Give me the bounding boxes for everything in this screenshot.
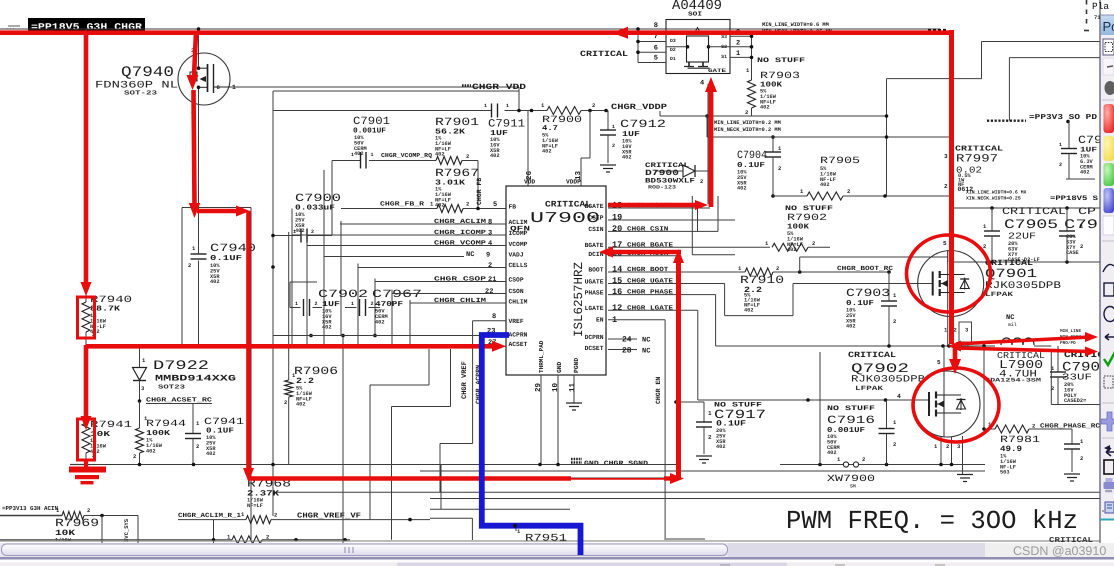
ground Q7902: [957, 465, 973, 482]
svg-text:2: 2: [1080, 243, 1083, 250]
resistor R7901: [435, 117, 480, 209]
svg-text:=PP3V3 SO PD: =PP3V3 SO PD: [1029, 113, 1098, 122]
svg-text:2: 2: [188, 262, 191, 269]
svg-text:C7916: C7916: [827, 415, 875, 427]
resistor R7903 (no stuff): [745, 57, 805, 116]
wire CHGR_VDD rail: [273, 83, 526, 92]
red annotation: Q7902 circle: [913, 368, 999, 442]
svg-text:29: 29: [534, 382, 543, 392]
svg-text:CHGR_VCOMP: CHGR_VCOMP: [434, 240, 486, 247]
diode D7922 MMBD914XXG: [133, 346, 237, 401]
svg-text:R7997: R7997: [956, 154, 998, 166]
svg-text:SOI: SOI: [688, 11, 703, 18]
svg-text:Q7901: Q7901: [985, 267, 1037, 281]
svg-text:CRITICAL: CRITICAL: [580, 50, 628, 59]
resistor R7900: [541, 102, 595, 155]
svg-text:NC: NC: [1006, 314, 1014, 322]
svg-text:R7900: R7900: [542, 114, 582, 125]
svg-text:CASED2=: CASED2=: [1064, 398, 1086, 404]
svg-text:26: 26: [525, 170, 534, 180]
svg-text:NO STUFF: NO STUFF: [757, 57, 805, 65]
svg-text:MIN_LINE_WIDTH=0.6 MM: MIN_LINE_WIDTH=0.6 MM: [762, 22, 829, 28]
svg-text:BGATE: BGATE: [585, 242, 604, 249]
resistor R7951 (partial): [430, 518, 567, 544]
svg-text:SOT23: SOT23: [158, 384, 186, 391]
node CHGR_EN: [655, 377, 662, 404]
svg-text:R7941: R7941: [90, 419, 132, 430]
red annotation: ground emphasis: [69, 460, 106, 484]
svg-text:mil: mil: [1008, 322, 1017, 328]
svg-text:402: 402: [1080, 170, 1090, 176]
svg-text:CHGR_ICOMP: CHGR_ICOMP: [434, 229, 486, 236]
svg-text:SVC_SYS: SVC_SYS: [123, 518, 130, 542]
capacitor C7905 critical: [983, 207, 1066, 263]
svg-text:NC: NC: [642, 337, 650, 345]
transistor Q7940 FDN360P: [95, 27, 236, 115]
svg-text:2: 2: [284, 399, 287, 406]
red annotation: BGATE to A04409 gate: [608, 77, 717, 210]
svg-text:DCPRN: DCPRN: [585, 334, 604, 341]
svg-text:R7902: R7902: [787, 212, 827, 223]
svg-text:D7922: D7922: [153, 358, 209, 373]
svg-text:LGATE: LGATE: [585, 305, 604, 312]
transistor Q7902 RJK0305DPB: [848, 346, 980, 474]
svg-text:33UF: 33UF: [1062, 373, 1092, 383]
resistor R7905: [773, 155, 952, 200]
svg-text:R7967: R7967: [435, 168, 479, 180]
wire bottom of acset rc: [85, 453, 87, 465]
blue annotation over scrollbar: [578, 543, 584, 555]
transistor A04409 dual fet: [638, 0, 752, 88]
ground C7982: [1064, 474, 1080, 481]
svg-text:5: 5: [943, 240, 947, 247]
svg-text:VADJ: VADJ: [509, 252, 524, 259]
svg-text:VREF: VREF: [509, 318, 524, 325]
capacitor C7908 33UF: [1050, 346, 1104, 405]
blue annotation: ACPRN trace: [482, 335, 581, 552]
red annotation: arrow down into Q7902: [949, 346, 961, 374]
red annotation: ACSET arrow: [86, 341, 506, 352]
wire Q7940 source down: [182, 104, 251, 540]
svg-text:402: 402: [744, 308, 754, 314]
svg-text:ACLIM: ACLIM: [509, 219, 528, 226]
svg-text:NF=LF: NF=LF: [247, 503, 263, 509]
wire long rail y465: [70, 463, 677, 467]
svg-text:2: 2: [812, 240, 815, 247]
svg-text:10: 10: [551, 382, 560, 392]
svg-text:CSIP: CSIP: [588, 215, 603, 222]
svg-text:402: 402: [296, 402, 306, 408]
svg-text:NC: NC: [466, 251, 474, 259]
wire loop corner x700 y394: [0, 0, 1, 1]
svg-text:2: 2: [778, 165, 781, 172]
wire A04409 right pins bus: [750, 34, 754, 80]
svg-text:2: 2: [745, 109, 748, 116]
svg-text:C79: C79: [1078, 135, 1102, 147]
capacitor C7917 (no stuff): [677, 402, 766, 455]
svg-text:XIN_LINE_WIDTH=0.6 MX: XIN_LINE_WIDTH=0.6 MX: [966, 190, 1027, 196]
svg-text:402: 402: [820, 182, 830, 188]
svg-text:CHGR EN: CHGR EN: [655, 377, 662, 404]
node phase row y346: [716, 344, 995, 348]
svg-text:CHGR_ACSET_RC: CHGR_ACSET_RC: [146, 397, 212, 404]
svg-text:402: 402: [435, 152, 445, 158]
resistor R7906: [284, 232, 338, 465]
svg-text:ROD-123: ROD-123: [648, 185, 676, 191]
red annotation: vertical through Q7940: [187, 33, 251, 218]
svg-text:NC: NC: [642, 348, 650, 356]
svg-text:SOT-23: SOT-23: [124, 90, 157, 97]
svg-text:0.1UF: 0.1UF: [210, 254, 243, 263]
capacitor C7982: [1064, 429, 1084, 472]
resistor CHGR_ACLIM_R_1: [178, 511, 430, 545]
svg-text:C7903: C7903: [846, 288, 890, 300]
node CHGR_VDDP wire tick: [659, 111, 661, 116]
svg-text:16: 16: [612, 287, 622, 297]
svg-text:GATE: GATE: [708, 68, 726, 74]
svg-text:MIN_NECK_WIDTH=0.2 MM: MIN_NECK_WIDTH=0.2 MM: [714, 127, 781, 133]
svg-text:C7912: C7912: [620, 119, 666, 131]
svg-text:2: 2: [983, 243, 986, 250]
ground PGND: [566, 403, 582, 410]
svg-text:VCOMP: VCOMP: [509, 241, 528, 248]
svg-text:402: 402: [622, 155, 632, 161]
svg-text:C7911: C7911: [488, 119, 525, 131]
toolbar panel right: [1101, 15, 1114, 520]
svg-text:2: 2: [736, 40, 740, 48]
wire Q7902 source rail: [780, 463, 985, 467]
svg-text:S2: S2: [721, 44, 727, 50]
wire long rail y490: [273, 465, 1100, 539]
capacitor C7903: [846, 272, 897, 346]
red annotation: left vertical with arrow: [81, 33, 92, 296]
svg-text:402: 402: [490, 153, 500, 159]
svg-text:21: 21: [488, 276, 496, 284]
svg-text:R7901: R7901: [435, 117, 480, 129]
svg-text:402: 402: [210, 279, 220, 285]
svg-text:LFPAK: LFPAK: [985, 291, 1013, 298]
red annotation: right vertical: [949, 30, 954, 344]
svg-text:CHGR VDD: CHGR VDD: [472, 83, 526, 92]
wire boot to gate Q7901: [793, 283, 933, 285]
svg-text:24: 24: [622, 336, 632, 345]
svg-text:2: 2: [133, 453, 136, 460]
node =PP3V13_G3H_ACIN: [0, 505, 62, 516]
diode D7900 BD530W: [645, 162, 712, 191]
svg-text:R7951: R7951: [525, 534, 567, 545]
svg-text:CHGR VREF: CHGR VREF: [461, 361, 469, 399]
svg-text:LFPAK: LFPAK: [855, 385, 883, 392]
svg-text:3: 3: [488, 230, 492, 238]
resistor CHGR_FB_R: [341, 201, 506, 213]
svg-text:2: 2: [776, 265, 779, 272]
svg-text:1: 1: [506, 103, 509, 109]
svg-text:PHASE: PHASE: [585, 290, 604, 297]
svg-text:C7902: C7902: [318, 289, 368, 301]
svg-text:C7941: C7941: [204, 416, 244, 427]
min width notes right: [966, 190, 1027, 202]
svg-text:CRITICAL: CRITICAL: [955, 145, 1004, 154]
svg-text:GND CHGR SGND: GND CHGR SGND: [584, 460, 648, 467]
svg-text:402: 402: [542, 149, 552, 155]
svg-text:=PP3V13 G3H ACIN: =PP3V13 G3H ACIN: [2, 505, 58, 512]
svg-text:402: 402: [354, 151, 364, 157]
svg-text:R7981: R7981: [1000, 434, 1040, 445]
svg-text:CHGR_VDDP: CHGR_VDDP: [611, 103, 667, 112]
svg-text:D2: D2: [670, 47, 676, 53]
node GND_CHGR_SGND: [571, 459, 648, 467]
resistor R7969: [55, 507, 138, 545]
svg-text:8: 8: [492, 313, 496, 321]
svg-text:1: 1: [351, 152, 354, 158]
capacitor C7901: [332, 116, 436, 236]
svg-text:CHLIM: CHLIM: [509, 299, 528, 306]
svg-text:MIN_LINE_WIDTH=0.2 MM: MIN_LINE_WIDTH=0.2 MM: [714, 120, 781, 126]
capacitor C7967: [345, 289, 422, 325]
svg-text:2: 2: [862, 456, 865, 463]
svg-text:12: 12: [612, 303, 622, 313]
svg-text:ACSET: ACSET: [509, 341, 528, 348]
svg-text:THRML_PAD: THRML_PAD: [538, 340, 545, 373]
svg-text:402: 402: [827, 450, 837, 456]
svg-text:CSOP: CSOP: [509, 277, 524, 284]
svg-text:2: 2: [893, 318, 896, 325]
red annotation: rect around R7940: [78, 297, 95, 338]
svg-text:BGATE: BGATE: [585, 203, 604, 210]
svg-text:UGATE: UGATE: [585, 279, 604, 286]
svg-text:402: 402: [206, 451, 216, 457]
svg-text:CSON: CSON: [509, 288, 524, 295]
svg-text:C7967: C7967: [372, 289, 422, 301]
node =PP3V3_SO_PD: [987, 113, 1098, 123]
svg-text:CHGR_PHASE_RC: CHGR_PHASE_RC: [1040, 423, 1100, 430]
svg-text:402: 402: [846, 324, 856, 330]
wire Q7940 gate to CHGR_VDD: [230, 87, 519, 111]
resistor R7967: [435, 168, 483, 404]
resistor R7968: [247, 479, 291, 509]
svg-text:EN: EN: [596, 317, 604, 324]
inductor L7900: [985, 314, 1051, 384]
svg-text:CHGR_ACLIM_R_1: CHGR_ACLIM_R_1: [178, 512, 241, 519]
junction on blue: [513, 524, 517, 528]
svg-text:CASE: CASE: [1066, 250, 1079, 256]
svg-text:CHGR_BOOT_RC: CHGR_BOOT_RC: [837, 265, 893, 272]
wire top rail PP18V5: [0, 25, 947, 31]
svg-text:2: 2: [87, 507, 90, 514]
svg-text:C7904: C7904: [737, 150, 767, 162]
svg-text:FDA1254-3SM: FDA1254-3SM: [985, 377, 1042, 384]
svg-text:2: 2: [466, 201, 469, 208]
svg-text:FB: FB: [509, 204, 517, 211]
svg-text:D1: D1: [670, 56, 676, 62]
svg-text:CHGR FB: CHGR FB: [476, 178, 483, 205]
jumper XW7900: [820, 352, 875, 490]
svg-text:402: 402: [716, 444, 726, 450]
status strip: [0, 557, 1114, 566]
capacitor C7911: [484, 103, 525, 159]
wire staircase right of U7900: [665, 196, 929, 540]
svg-text:NO STUFF: NO STUFF: [827, 405, 875, 413]
svg-text:C7905: C7905: [1004, 217, 1058, 232]
resistor R7940: [82, 29, 132, 345]
svg-text:2: 2: [700, 178, 703, 185]
U7900 bottom pins THRML_PAD GND PGND: [534, 340, 580, 464]
capacitor C7900: [271, 193, 341, 269]
svg-text:1: 1: [736, 50, 740, 58]
capacitor C7902: [290, 282, 368, 331]
svg-text:R7940: R7940: [90, 294, 132, 305]
svg-text:Q7940: Q7940: [121, 65, 174, 81]
svg-text:CHGR_CHLIM: CHGR_CHLIM: [434, 297, 486, 304]
capacitor C7913 top right: [1059, 122, 1102, 180]
red annotation: rect around R7941: [78, 419, 95, 460]
resistor R7910: [738, 257, 948, 314]
svg-text:DCSET: DCSET: [585, 345, 604, 352]
svg-text:5: 5: [654, 55, 658, 63]
node CHGR_ACSET_RC: [138, 397, 213, 404]
svg-text:4: 4: [488, 240, 492, 248]
svg-text:22UF: 22UF: [1008, 232, 1036, 242]
svg-text:2: 2: [946, 443, 949, 450]
svg-text:PWM FREQ. = 3OO kHz: PWM FREQ. = 3OO kHz: [786, 506, 1078, 536]
wire main VDD row: [273, 109, 608, 113]
red annotation: top line: [0, 27, 950, 39]
svg-text:ISL6257HRZ: ISL6257HRZ: [572, 261, 586, 337]
svg-text:2: 2: [311, 229, 314, 235]
svg-text:2: 2: [466, 153, 469, 160]
svg-text:1: 1: [351, 301, 354, 307]
svg-text:BOOT: BOOT: [588, 267, 603, 274]
red annotation: bottom horizontal to EN: [249, 473, 685, 484]
svg-text:5: 5: [493, 201, 497, 209]
red annotation: vertical x247 with arrow: [243, 211, 254, 482]
capacitor C7904: [737, 135, 782, 198]
red annotation: double arrow right side: [948, 332, 1098, 357]
node =PP18V5_S: [1050, 195, 1098, 203]
svg-text:402: 402: [375, 319, 385, 325]
svg-text:2: 2: [1059, 162, 1062, 168]
svg-text:CHGR_ACLIM: CHGR_ACLIM: [434, 218, 486, 225]
svg-text:1: 1: [293, 229, 296, 235]
svg-text:1: 1: [484, 103, 487, 109]
net rows out of U7900 right: [608, 84, 793, 356]
svg-text:2: 2: [893, 441, 896, 448]
svg-text:D3: D3: [670, 38, 676, 44]
svg-text:C7900: C7900: [295, 193, 341, 205]
resistor R7944: [133, 401, 186, 465]
ground left (black): [70, 464, 86, 466]
svg-text:20: 20: [612, 224, 622, 234]
svg-text:8: 8: [654, 22, 658, 30]
svg-text:2: 2: [612, 143, 615, 149]
svg-text:R7903: R7903: [760, 70, 800, 81]
svg-text:13: 13: [574, 170, 583, 180]
svg-text:8: 8: [488, 219, 492, 227]
capacitor C7941: [185, 404, 244, 465]
svg-text:RJK0305DPB: RJK0305DPB: [851, 374, 925, 385]
wire rail y478 under red: [420, 477, 678, 479]
wire A04409 left pins bus: [580, 27, 640, 62]
svg-text:2: 2: [266, 534, 269, 541]
svg-text:XW7900: XW7900: [827, 473, 875, 484]
svg-text:2: 2: [1080, 455, 1083, 462]
wire top right mesh: [660, 42, 1100, 197]
svg-text:2: 2: [274, 512, 277, 519]
svg-text:402: 402: [146, 448, 156, 454]
svg-text:1: 1: [612, 124, 615, 130]
svg-text:15: 15: [612, 276, 622, 286]
svg-text:402: 402: [760, 105, 770, 111]
svg-text:402: 402: [295, 228, 305, 234]
svg-text:ICOMP: ICOMP: [509, 230, 528, 237]
ground C7917: [696, 456, 712, 463]
svg-text:MMBD914XXG: MMBD914XXG: [155, 374, 236, 384]
wire left bus verticals: [273, 91, 473, 545]
wire gate/r7903 row: [660, 114, 752, 118]
resistor R7941: [82, 345, 132, 462]
svg-text:SM: SM: [850, 484, 856, 490]
svg-text:CHGR_CSOP: CHGR_CSOP: [434, 276, 486, 283]
svg-text:2: 2: [708, 434, 712, 441]
svg-text:2: 2: [944, 183, 948, 190]
svg-text:...: ...: [6, 25, 15, 31]
svg-text:Pla: Pla: [1092, 1, 1109, 12]
svg-text:6: 6: [654, 45, 658, 53]
svg-text:2: 2: [371, 301, 374, 307]
red annotation: Q7901 circle: [907, 235, 991, 312]
svg-text:1: 1: [371, 152, 374, 158]
svg-text:503: 503: [1000, 470, 1010, 476]
text Pla (page behind): [1084, 0, 1109, 31]
svg-text:ACPRN: ACPRN: [509, 332, 528, 339]
svg-text:PGND: PGND: [573, 358, 580, 373]
svg-text:XIN_NECK_WIDTH=0.25: XIN_NECK_WIDTH=0.25: [966, 196, 1021, 202]
svg-text:2: 2: [592, 102, 595, 109]
op-amp U7900 ISL6257HRZ charger controller IC: [506, 111, 606, 376]
svg-text:2: 2: [488, 262, 492, 270]
resistor R7997 critical: [944, 145, 1004, 194]
capacitor C7906 (clipped): [1059, 207, 1098, 262]
svg-text:2: 2: [847, 188, 850, 195]
red annotation: vertical x678 with up arrow: [673, 249, 684, 478]
svg-text:R7944: R7944: [146, 418, 186, 429]
svg-text:9: 9: [486, 252, 490, 260]
svg-text:CELLS: CELLS: [509, 262, 528, 269]
svg-text:3: 3: [944, 153, 948, 160]
node =PP18V5_G3H_CHGR highlighted net label: [28, 18, 145, 33]
svg-text:5: 5: [937, 359, 941, 366]
svg-text:Po: Po: [1103, 19, 1114, 34]
svg-text:28: 28: [622, 347, 632, 356]
capacitor C7912: [600, 111, 666, 173]
red annotation: DCIN left arrow: [599, 247, 681, 258]
node CHGR_BOOT_RC: [837, 265, 893, 272]
svg-text:S1: S1: [721, 54, 727, 60]
transistor Q7901 RJK0305DPB: [918, 240, 1061, 346]
svg-text:CHGR_VCOMP_RQ: CHGR_VCOMP_RQ: [381, 152, 432, 159]
svg-text:1: 1: [1059, 142, 1062, 148]
svg-text:14: 14: [612, 264, 622, 274]
resistor R7981: [982, 346, 1100, 476]
svg-text:402: 402: [737, 186, 747, 192]
svg-text:1: 1: [708, 410, 712, 417]
svg-text:2: 2: [315, 301, 318, 307]
svg-text:4: 4: [897, 393, 901, 400]
net rows into U7900 left: [273, 218, 506, 347]
svg-text:=PP18V5 S: =PP18V5 S: [1050, 195, 1098, 203]
svg-text:22: 22: [485, 288, 493, 296]
svg-text:4: 4: [700, 80, 704, 88]
